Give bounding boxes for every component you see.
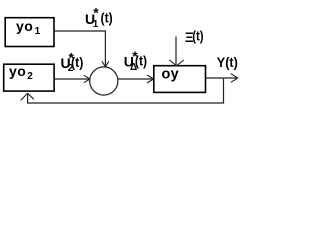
arrowhead output xyxy=(231,74,238,83)
arrowhead into summing junction top xyxy=(102,61,109,67)
svg-text:оу: оу xyxy=(162,67,180,83)
svg-text:(t): (t) xyxy=(71,54,83,70)
svg-text:уо: уо xyxy=(16,18,34,34)
block OU xyxy=(154,66,206,93)
svg-text:2: 2 xyxy=(27,71,33,82)
svg-text:уо: уо xyxy=(9,63,27,79)
output wire Y(t) xyxy=(206,77,237,79)
arrowhead into OU top xyxy=(169,60,183,66)
block UO2 xyxy=(4,64,54,91)
arrowhead into OU left xyxy=(147,75,154,83)
svg-text:1: 1 xyxy=(35,26,41,37)
svg-text:Y(t): Y(t) xyxy=(217,54,238,70)
svg-text:1: 1 xyxy=(93,19,99,30)
svg-text:(t): (t) xyxy=(135,52,147,68)
disturbance wire Xi(t) into OU top xyxy=(175,36,177,64)
svg-text:*: * xyxy=(93,5,99,21)
svg-text:(t): (t) xyxy=(192,28,203,44)
summing junction xyxy=(90,67,118,95)
feedback wire from output down, left and up into UO2 bottom xyxy=(28,79,224,103)
svg-text:(t): (t) xyxy=(101,10,113,26)
wire summing junction to OU xyxy=(118,78,153,80)
arrowhead feedback into UO2 bottom xyxy=(21,93,34,100)
wire UO1 to summing junction xyxy=(54,31,105,66)
arrowhead into summing junction left xyxy=(84,75,90,82)
block UO1 xyxy=(5,18,54,47)
wire UO2 to summing junction xyxy=(54,78,89,80)
